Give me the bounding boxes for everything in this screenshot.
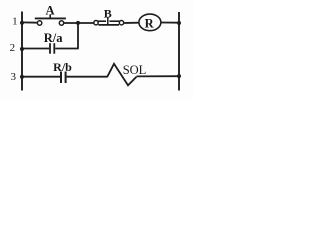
svg-text:SOL: SOL: [123, 63, 147, 77]
svg-text:R: R: [145, 16, 155, 30]
wire rung2 rail to contact R/a: [22, 48, 49, 50]
wire rung1 contact A to junction and contact B: [64, 22, 94, 24]
solenoid SOL zigzag: [107, 64, 136, 86]
wire rung3 solenoid to right rail: [137, 75, 180, 77]
wire rung1 coil R to right rail: [161, 22, 179, 24]
pushbutton A stem: [49, 14, 51, 18]
pushbutton B fixed contact lines: [98, 20, 107, 22]
wire rung1 contact B to coil R: [124, 22, 139, 24]
pushbutton B bridge bar: [99, 24, 120, 26]
svg-text:3: 3: [11, 71, 17, 83]
svg-text:R/b: R/b: [53, 60, 72, 74]
contact R/a bar 2: [53, 43, 55, 54]
wire branch connector up to rung1: [77, 23, 79, 49]
contact R/b bar 1: [60, 72, 62, 84]
contact R/a bar 1: [49, 43, 51, 54]
node rung3 left rail: [20, 75, 24, 79]
node rung1 right rail: [177, 21, 181, 25]
wire rung2 contact R/a to branch connector: [55, 48, 78, 50]
wire rung3 rail to contact R/b: [22, 76, 60, 78]
left rail: [21, 12, 23, 91]
node rung1 left rail: [20, 21, 24, 25]
pushbutton A actuator bar: [35, 17, 66, 19]
svg-text:B: B: [104, 7, 112, 21]
svg-text:A: A: [45, 3, 54, 17]
node rung2 left rail: [20, 47, 24, 51]
wire rung3 contact R/b to solenoid: [67, 76, 108, 78]
node rung3 right rail: [177, 74, 181, 78]
pushbutton B contact circles: [94, 21, 98, 25]
svg-text:R/a: R/a: [44, 31, 64, 45]
relay coil R: [139, 14, 161, 31]
right rail: [178, 12, 180, 91]
wire rung1 rail to contact A: [22, 21, 37, 23]
contact R/b bar 2: [65, 72, 67, 84]
pushbutton A contact circles: [37, 21, 41, 25]
svg-text:2: 2: [10, 42, 16, 54]
pushbutton B stem: [107, 18, 109, 25]
node rung1 branch junction: [76, 21, 80, 25]
svg-text:1: 1: [12, 15, 18, 27]
